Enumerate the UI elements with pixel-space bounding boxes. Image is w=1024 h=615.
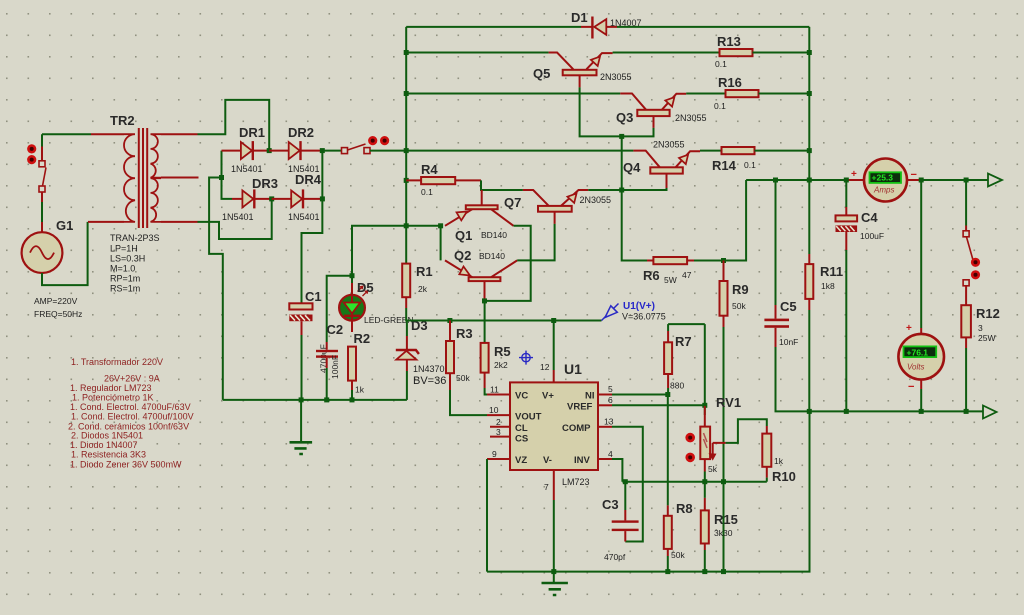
wire voltmeter drop: [920, 180, 922, 328]
node rail switch: [964, 178, 969, 183]
transistor Q1: [445, 190, 514, 226]
node Q1 emitter: [438, 223, 443, 228]
pin 11 VC: [487, 394, 510, 396]
svg-text:V-: V-: [543, 455, 552, 466]
node v406 L4: [404, 148, 409, 153]
svg-text:1. Transformador 220V: 1. Transformador 220V: [71, 357, 163, 367]
wire Q3 emitter to R16: [686, 93, 725, 95]
node R6 R9: [721, 258, 726, 263]
svg-text:Q2: Q2: [454, 248, 471, 263]
svg-text:RP=1m: RP=1m: [110, 274, 140, 284]
svg-text:VOUT: VOUT: [515, 412, 542, 423]
svg-text:Q7: Q7: [504, 195, 521, 210]
svg-text:2k2: 2k2: [494, 360, 508, 370]
svg-text:5: 5: [608, 384, 613, 394]
parts list text: [68, 357, 194, 470]
wire D1 line: [406, 26, 809, 28]
transformer TR2: [88, 128, 199, 228]
svg-text:880: 880: [670, 381, 684, 391]
wire VZ down: [486, 459, 488, 572]
node nrail C4: [844, 409, 849, 414]
zener D3: [396, 321, 419, 400]
node drive Q7: [619, 188, 624, 193]
probe dots pair right: [971, 258, 980, 280]
svg-text:1. Diodo Zener 36V 500mW: 1. Diodo Zener 36V 500mW: [70, 460, 182, 470]
svg-text:3k30: 3k30: [714, 528, 733, 538]
svg-text:0.1: 0.1: [714, 101, 726, 111]
pin 3 CS: [490, 436, 510, 438]
probe dots pair left: [27, 144, 36, 164]
resistor R16: [726, 90, 759, 97]
node C2 gnd: [324, 397, 329, 402]
diode DR2: [269, 141, 322, 160]
node nrail R11: [807, 409, 812, 414]
svg-text:TRAN-2P3S: TRAN-2P3S: [110, 233, 160, 243]
svg-text:BD140: BD140: [481, 230, 507, 240]
svg-text:1N5401: 1N5401: [222, 212, 254, 222]
svg-text:47: 47: [682, 270, 692, 280]
node DR2 out: [320, 148, 325, 153]
svg-text:25W: 25W: [978, 333, 995, 343]
switch SW3: [963, 226, 973, 306]
svg-text:COMP: COMP: [562, 423, 591, 434]
svg-text:D5: D5: [357, 280, 374, 295]
svg-text:R1: R1: [416, 264, 433, 279]
svg-text:VC: VC: [515, 391, 528, 402]
svg-text:DR4: DR4: [295, 172, 322, 187]
svg-text:R2: R2: [354, 331, 371, 346]
pin 7 V-: [553, 470, 555, 500]
svg-text:1. Potenciómetro 1K: 1. Potenciómetro 1K: [72, 393, 154, 403]
svg-text:10nF: 10nF: [779, 337, 798, 347]
svg-text:+: +: [906, 323, 912, 334]
svg-text:Q3: Q3: [616, 110, 633, 125]
node rail C4: [844, 178, 849, 183]
chip U1 LM723: [510, 382, 598, 470]
wire VREF vertical: [704, 324, 706, 415]
svg-text:Q4: Q4: [623, 160, 641, 175]
wire collector tie: [580, 87, 654, 136]
capacitor C2: [316, 342, 338, 400]
led D5: [339, 276, 368, 332]
node rv L2: [807, 50, 812, 55]
capacitor C1: [289, 303, 312, 400]
wire line2: [406, 52, 548, 54]
svg-text:R16: R16: [718, 75, 742, 90]
node DR1-DR2: [267, 148, 272, 153]
diode DR3: [232, 189, 272, 208]
svg-text:+: +: [851, 169, 857, 180]
resistor R9: [720, 261, 728, 572]
pin 10 VOUT: [487, 414, 510, 416]
svg-text:50k: 50k: [732, 301, 746, 311]
svg-text:5W: 5W: [664, 275, 677, 285]
svg-text:G1: G1: [56, 218, 73, 233]
resistor R14: [722, 147, 755, 154]
svg-text:100nF: 100nF: [330, 355, 340, 379]
wire R13 right: [753, 52, 810, 54]
resistor R6: [647, 180, 746, 264]
transistor Q4: [622, 151, 700, 190]
svg-text:2N3055: 2N3055: [653, 140, 685, 150]
svg-text:1k: 1k: [355, 385, 365, 395]
wire Q7 emitter to node: [588, 189, 621, 191]
wire secondary top loop: [198, 100, 270, 151]
svg-text:1N5401: 1N5401: [231, 164, 263, 174]
node v406 R4: [404, 178, 409, 183]
pin 2 CL: [490, 426, 510, 428]
pin 9 VZ: [487, 458, 510, 460]
svg-text:BV=36: BV=36: [413, 375, 446, 387]
svg-text:RV1: RV1: [716, 395, 741, 410]
svg-text:V+: V+: [542, 391, 554, 402]
resistor R10: [762, 426, 771, 482]
svg-text:R10: R10: [772, 469, 796, 484]
svg-text:FREQ=50Hz: FREQ=50Hz: [34, 309, 82, 319]
svg-text:R13: R13: [717, 34, 741, 49]
svg-text:LM723: LM723: [562, 477, 590, 487]
node nrail R12: [964, 409, 969, 414]
node C1 gnd: [299, 397, 304, 402]
svg-text:+25.3: +25.3: [872, 172, 894, 182]
svg-text:10: 10: [489, 405, 499, 415]
svg-text:INV: INV: [574, 455, 591, 466]
svg-text:Q1: Q1: [455, 228, 472, 243]
svg-text:1k8: 1k8: [821, 281, 835, 291]
ammeter: [851, 159, 917, 202]
ground symbol 2: [542, 572, 568, 595]
svg-text:BD140: BD140: [479, 251, 505, 261]
svg-text:U1: U1: [564, 361, 582, 377]
wire Q5 emitter to R13: [613, 52, 720, 54]
pin 5 NI: [598, 394, 612, 396]
node rv L3: [807, 91, 812, 96]
generator G1: [22, 232, 63, 273]
wire Q1 collector loop: [485, 226, 531, 301]
transistor Q5: [549, 53, 613, 88]
svg-text:DR3: DR3: [252, 176, 278, 191]
svg-text:1. Cond. Electrol. 4700uf/100V: 1. Cond. Electrol. 4700uf/100V: [71, 412, 194, 422]
svg-text:0.1: 0.1: [421, 187, 433, 197]
svg-text:C2: C2: [327, 322, 344, 337]
svg-text:C3: C3: [602, 497, 619, 512]
svg-text:470pf: 470pf: [604, 552, 626, 562]
node VREF RV1: [702, 403, 707, 408]
svg-text:NI: NI: [585, 391, 595, 402]
terminal output plus: [988, 174, 1002, 187]
resistor R15: [701, 498, 709, 572]
svg-text:U1(V+): U1(V+): [623, 301, 655, 312]
node DR3-DR4: [269, 196, 274, 201]
svg-text:AMP=220V: AMP=220V: [34, 296, 78, 306]
node v406 L2: [404, 50, 409, 55]
node collector tie: [619, 134, 624, 139]
svg-text:Q5: Q5: [533, 66, 550, 81]
capacitor C4: [836, 180, 858, 411]
svg-text:CL: CL: [515, 423, 528, 434]
svg-text:C4: C4: [861, 210, 878, 225]
node bridge neg: [219, 175, 224, 180]
wire right vertical: [808, 27, 810, 254]
wire R14 right: [755, 150, 810, 152]
wire Q2 collector to Q7: [517, 224, 554, 261]
svg-text:R6: R6: [643, 268, 660, 283]
wire ground rail: [223, 399, 407, 401]
node rail U1 pin12: [551, 318, 556, 323]
resistor R8: [664, 505, 672, 571]
svg-text:0.1: 0.1: [744, 160, 756, 170]
resistor R3: [446, 321, 487, 416]
svg-text:3: 3: [978, 323, 983, 333]
svg-text:Amps: Amps: [873, 186, 894, 195]
switch SW2: [322, 144, 406, 154]
svg-text:2: 2: [496, 417, 501, 427]
svg-text:7: 7: [544, 482, 549, 492]
node R8 bottom: [665, 569, 670, 574]
svg-text:D1: D1: [571, 10, 588, 25]
svg-text:1. Cond. Electrol. 4700uF/63V: 1. Cond. Electrol. 4700uF/63V: [70, 402, 191, 412]
svg-text:V=36.0775: V=36.0775: [622, 312, 666, 322]
pin 4 INV: [598, 458, 612, 460]
wire bridge plus tie: [302, 151, 323, 304]
svg-text:9: 9: [492, 449, 497, 459]
svg-text:R4: R4: [421, 162, 438, 177]
node rail R3: [447, 318, 452, 323]
resistor R5: [481, 343, 489, 395]
potentiometer RV1: [700, 406, 767, 498]
wire main left vertical: [405, 27, 407, 264]
resistor R4: [406, 177, 481, 184]
wire Q4 emitter to R14: [700, 150, 722, 152]
svg-text:13: 13: [604, 417, 614, 427]
svg-text:1N4370: 1N4370: [413, 364, 445, 374]
svg-text:DR2: DR2: [288, 125, 314, 140]
wire bridge negative: [209, 151, 223, 400]
wire INV line: [622, 481, 766, 483]
svg-text:C5: C5: [780, 299, 797, 314]
svg-text:R3: R3: [456, 326, 473, 341]
probe dots pair mid: [368, 136, 389, 145]
svg-text:5k: 5k: [708, 464, 718, 474]
svg-text:C1: C1: [305, 289, 322, 304]
resistor R7: [664, 324, 705, 394]
node Q2 base: [482, 298, 487, 303]
diode DR4: [272, 189, 323, 208]
svg-text:100uF: 100uF: [860, 231, 884, 241]
node C3 inv: [623, 479, 628, 484]
svg-text:R5: R5: [494, 344, 511, 359]
probe dots pair RV1: [685, 433, 695, 462]
svg-text:2N3055: 2N3055: [580, 195, 612, 205]
wire secondary bottom loop: [198, 199, 272, 239]
svg-text:6: 6: [608, 395, 613, 405]
svg-text:12: 12: [540, 362, 550, 372]
wire R16 right: [759, 93, 810, 95]
node rail C5: [773, 178, 778, 183]
resistor R1: [402, 264, 410, 321]
svg-text:1. Regulador LM723: 1. Regulador LM723: [70, 383, 152, 393]
wire Vplus rail: [407, 320, 602, 322]
wire switch branch: [965, 180, 967, 226]
probe U1(V+): [602, 304, 619, 321]
svg-text:1N5401: 1N5401: [288, 212, 320, 222]
svg-text:50k: 50k: [671, 550, 685, 560]
wire line3: [406, 93, 620, 95]
capacitor C3: [612, 482, 639, 542]
svg-text:1. Resistencia 3K3: 1. Resistencia 3K3: [71, 450, 146, 460]
voltmeter: [898, 323, 944, 411]
svg-text:R9: R9: [732, 282, 749, 297]
svg-text:R11: R11: [820, 264, 843, 279]
svg-text:2. Diodos 1N5401: 2. Diodos 1N5401: [71, 431, 143, 441]
svg-text:R7: R7: [675, 334, 692, 349]
resistor R12: [961, 305, 971, 411]
wire G1 bottom: [42, 222, 88, 285]
diode DR1: [222, 141, 270, 160]
svg-text:50k: 50k: [456, 373, 470, 383]
wire drive vertical: [622, 136, 647, 260]
transistor Q2: [445, 260, 517, 301]
svg-text:CS: CS: [515, 434, 528, 445]
node nrail voltmeter: [919, 409, 924, 414]
pin 13 COMP: [598, 426, 612, 428]
node R9 INV: [721, 479, 726, 484]
node R15 bottom: [702, 569, 707, 574]
pin 6 VREF: [598, 404, 612, 406]
svg-text:1N4007: 1N4007: [610, 18, 642, 28]
svg-text:11: 11: [490, 385, 499, 395]
resistor R11: [805, 254, 813, 411]
svg-text:R14: R14: [712, 158, 737, 173]
svg-text:LS=0.3H: LS=0.3H: [110, 254, 145, 264]
svg-text:M=1.0: M=1.0: [110, 264, 135, 274]
wire plus output rail: [746, 179, 987, 181]
node LED feed: [350, 273, 355, 278]
node R2 gnd: [350, 397, 355, 402]
wire Q2 base to R5: [484, 301, 486, 343]
node rv L4: [807, 148, 812, 153]
svg-text:26V+26V : 9A: 26V+26V : 9A: [104, 374, 160, 384]
node v406 L3: [404, 91, 409, 96]
wire R4 to bases: [481, 180, 523, 190]
transistor Q3: [620, 94, 686, 128]
resistor R2: [348, 347, 356, 400]
wire DR3 anode drop: [222, 178, 233, 199]
svg-text:1. Diodo 1N4007: 1. Diodo 1N4007: [70, 440, 138, 450]
svg-text:0.1: 0.1: [715, 59, 727, 69]
node DR4 out: [320, 196, 325, 201]
svg-text:2N3055: 2N3055: [675, 113, 707, 123]
capacitor C5: [764, 180, 982, 411]
svg-text:LP=1H: LP=1H: [110, 244, 138, 254]
diode D1: [592, 17, 606, 39]
node v406 LED: [404, 223, 409, 228]
blue marker cross: [519, 351, 533, 365]
ground symbol 1: [290, 400, 313, 454]
node R7 NI: [665, 392, 670, 397]
svg-text:2N3055: 2N3055: [600, 72, 632, 82]
node rv rail: [807, 178, 812, 183]
switch SW1: [39, 147, 46, 233]
wire Q1 Q2 emitter tie: [406, 226, 440, 261]
svg-text:4: 4: [608, 449, 613, 459]
svg-text:R12: R12: [976, 306, 1000, 321]
svg-text:TR2: TR2: [110, 113, 135, 128]
pin 12 V+: [553, 370, 555, 382]
svg-text:Volts: Volts: [907, 363, 925, 372]
node rail voltmeter: [919, 178, 924, 183]
transistor Q7: [523, 190, 588, 224]
wire LED feed: [327, 226, 407, 342]
svg-text:−: −: [911, 169, 917, 181]
svg-text:1k: 1k: [774, 456, 784, 466]
svg-text:R8: R8: [676, 501, 693, 516]
svg-text:VZ: VZ: [515, 455, 527, 466]
terminal output minus: [983, 406, 997, 419]
svg-text:+76.1: +76.1: [907, 347, 929, 357]
svg-text:−: −: [908, 381, 914, 393]
svg-text:DR1: DR1: [239, 125, 265, 140]
node R9 bottom: [721, 569, 726, 574]
svg-text:VREF: VREF: [567, 402, 593, 413]
node RV1 INV: [702, 479, 707, 484]
wire NI node to R8: [667, 395, 669, 506]
svg-text:2k: 2k: [418, 284, 428, 294]
wire line4 to Q4 base: [406, 150, 633, 152]
svg-text:3: 3: [496, 427, 501, 437]
svg-text:RS=1m: RS=1m: [110, 284, 140, 294]
wire bottom rail: [487, 411, 810, 571]
node gnd2: [551, 569, 556, 574]
svg-text:R15: R15: [714, 512, 738, 527]
resistor R13: [720, 49, 753, 56]
wire G1 top: [42, 134, 91, 222]
